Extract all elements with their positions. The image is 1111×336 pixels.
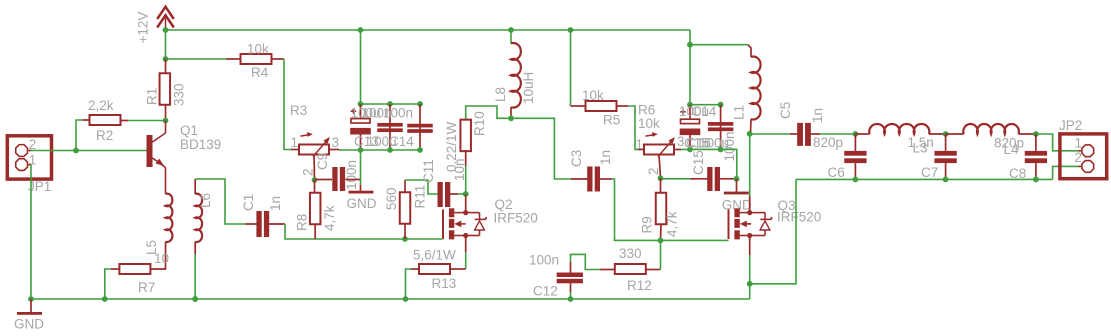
label L5 name (144, 240, 159, 255)
wire C7 bottom pin (945, 163, 947, 179)
wire rail corner to L1 (690, 44, 748, 46)
label C9 value 100n (344, 160, 359, 190)
label R12 value 330 (619, 246, 642, 261)
svg-text:R9: R9 (640, 216, 655, 233)
junction ground rail R13 (403, 296, 409, 302)
junction C8 bottom (1033, 177, 1039, 183)
svg-text:IRF520: IRF520 (494, 211, 538, 226)
label R1 value 330 (172, 83, 187, 106)
svg-text:R13: R13 (432, 276, 457, 291)
label R8 value 4,7k (322, 205, 337, 231)
wire R10 bottom pin (465, 150, 467, 166)
wire JP2 pin1 stub (1079, 150, 1082, 152)
label JP1 pin 1 (29, 153, 37, 168)
wire C1 left pin (245, 223, 257, 225)
svg-text:C11: C11 (421, 159, 436, 183)
capacitor C5 (797, 123, 811, 146)
wire R3 pin3 stub (329, 149, 339, 151)
junction JP1/R2/Q1 base (73, 148, 79, 154)
label C1 value 1n (268, 196, 283, 211)
junction Q2 source (463, 233, 468, 238)
resistor R12 (615, 264, 646, 274)
wire L6 to C1 (195, 179, 245, 224)
label C13 value 100u (351, 106, 381, 121)
label C5 name (778, 102, 793, 119)
svg-text:C1: C1 (241, 194, 256, 211)
label C10 value 100n (362, 106, 392, 121)
label GND stage2 (722, 198, 752, 213)
label +12V (136, 12, 151, 44)
svg-text:R11: R11 (413, 185, 428, 209)
junction C11/R10/drain (463, 191, 469, 197)
junction R6 wiper node (658, 175, 664, 181)
svg-text:GND: GND (14, 317, 44, 332)
svg-text:2: 2 (646, 167, 661, 175)
wire C15 left pin (690, 178, 707, 180)
wire JP1 pin2 to Q1 base (31, 150, 147, 152)
wire C3 right pin (599, 178, 612, 180)
transistor Q3 IRF520 (729, 208, 772, 239)
wire C14 pins (419, 104, 421, 150)
wire R3 pin3 to cap bank (339, 149, 420, 151)
label Q1 name (180, 123, 198, 138)
wire R4 right pin (272, 58, 285, 60)
wire source to ground node (749, 255, 751, 284)
svg-text:2: 2 (1075, 150, 1083, 165)
label C6 value 820p (813, 135, 843, 150)
label L4 name (1004, 142, 1020, 157)
label GND bank (347, 196, 377, 211)
wire GND2 stub (736, 179, 738, 192)
wire C1 right pin (269, 223, 285, 225)
label R3 pin3 (332, 135, 340, 150)
wire drain to L1 node (749, 134, 751, 196)
svg-text:R3: R3 (290, 103, 307, 118)
wire C1 to gate network (285, 224, 405, 239)
wire gate feed Q2 (405, 238, 443, 240)
wire Q2 source down (465, 236, 467, 253)
resistor R8 (310, 193, 321, 225)
svg-text:IRF520: IRF520 (777, 210, 821, 225)
wire R10 to drain node (465, 166, 467, 194)
svg-text:C15: C15 (691, 150, 706, 175)
wire bank2 top (690, 104, 721, 106)
wire R4 left pin (226, 58, 241, 60)
connector JP2 (1060, 134, 1107, 179)
wire L3 left pin (855, 133, 869, 135)
wire C8 bottom pin (1035, 163, 1037, 179)
junction rail R5 (568, 27, 574, 33)
wire bank to GND (360, 150, 362, 185)
svg-text:R8: R8 (295, 214, 310, 231)
wire JP1 pin1 to ground rail (30, 165, 32, 299)
transistor Q1 BD139 (147, 121, 166, 195)
wire C7 top pin (945, 134, 947, 151)
svg-text:L8: L8 (493, 87, 508, 102)
wire node to R4 (166, 58, 227, 60)
junction ground rail left (28, 296, 34, 302)
svg-text:10k: 10k (247, 42, 269, 57)
resistor R2 (90, 115, 121, 125)
wire rail node L8 (510, 30, 512, 44)
wire JP1 pin1 stub (28, 164, 31, 166)
svg-text:10k: 10k (582, 88, 604, 103)
label JP1 pin 2 (29, 137, 37, 152)
label C15 name (691, 150, 706, 175)
wire C13 top pin (360, 104, 362, 119)
junction bank bottom C10 (387, 147, 393, 153)
wire R12 to R9 foot (660, 240, 662, 269)
wire C13 bottom pin (360, 135, 362, 151)
resistor R13 (419, 264, 450, 274)
junction rail L8 top (508, 27, 514, 33)
label JP2 name (1059, 118, 1082, 133)
junction Q3 drain (747, 210, 752, 215)
wire L1 top pin (748, 45, 751, 57)
junction C8 top (1033, 131, 1039, 137)
wire Q3 source down (749, 236, 751, 256)
junction ground rail C12 (568, 296, 574, 302)
label C8 name (1009, 166, 1026, 181)
junction bank bottom C13 (358, 147, 364, 153)
wire R13 left pin (411, 268, 419, 270)
resistor R9 (656, 193, 667, 225)
junction C6 top (853, 131, 859, 137)
capacitor C9 (332, 167, 345, 191)
label R6 name (638, 103, 655, 118)
svg-text:1n: 1n (598, 150, 613, 165)
label R10 name (472, 111, 487, 136)
svg-text:L6: L6 (198, 193, 213, 208)
wire L1 bottom pin (750, 119, 753, 134)
label L1 name (732, 105, 747, 120)
wire R3 wiper pin (313, 155, 316, 181)
label C3 value 1n (598, 150, 613, 165)
capacitor C10 (377, 123, 403, 132)
wire rail to R5 (570, 30, 572, 106)
wire R6 pin3 to bank2 (681, 149, 737, 178)
inductor L5 (166, 194, 173, 242)
label L4 value 820p (994, 136, 1024, 151)
connector JP1 (7, 136, 51, 179)
junction ground rail R7 (102, 296, 108, 302)
trimmer R6 (644, 132, 675, 156)
wire R2 left pin (83, 119, 91, 121)
junction L8 bottom (508, 115, 514, 121)
wire C9 right pin (345, 179, 360, 181)
wire C11 to drain node (458, 193, 466, 195)
label R13 value 5,6/1W (413, 248, 456, 263)
svg-text:C6: C6 (828, 165, 845, 180)
junction ground rail L6b (192, 296, 198, 302)
label R5 name (603, 113, 620, 128)
wire top +12V rail (166, 29, 691, 31)
resistor R7 (119, 264, 150, 274)
wire R6 pin1 stub (639, 149, 645, 151)
label Q2 value IRF520 (494, 211, 538, 226)
svg-text:C14: C14 (389, 134, 414, 149)
svg-text:1: 1 (636, 137, 644, 152)
label R13 name (432, 276, 457, 291)
wire R5 left pin (571, 105, 585, 107)
svg-text:10: 10 (154, 251, 169, 266)
junction R3 wiper node (312, 177, 318, 183)
wire gate feed Q3 (661, 239, 729, 241)
junction bank2 top C14 (718, 102, 724, 108)
wire R2 right pin (121, 120, 129, 122)
resistor R11 (400, 192, 411, 224)
wire C16 top pin (689, 105, 691, 120)
svg-text:L1: L1 (732, 105, 747, 120)
svg-text:L4: L4 (1004, 142, 1020, 157)
junction bank top C14 (417, 101, 423, 107)
svg-text:R7: R7 (138, 280, 155, 295)
label C11 value 10n (452, 158, 467, 181)
svg-text:R2: R2 (96, 128, 113, 143)
wire to JP2 pin2 (1053, 166, 1079, 179)
svg-text:C14: C14 (692, 104, 717, 119)
wire R12 left pin (600, 269, 615, 271)
wire C3 to R9 foot (612, 179, 661, 240)
wire base node up to R2 (76, 120, 83, 151)
svg-text:10k: 10k (638, 116, 660, 131)
wire R8 top pin (314, 180, 316, 193)
wire C6 top pin (854, 134, 856, 151)
wire rail to cap bank (360, 30, 362, 104)
svg-text:JP2: JP2 (1059, 118, 1082, 133)
label R9 name (640, 216, 655, 233)
svg-text:+12V: +12V (136, 12, 151, 44)
svg-text:4,7k: 4,7k (322, 205, 337, 231)
capacitor C8 (1025, 151, 1047, 163)
wire R7 to ground rail (105, 269, 111, 299)
svg-text:2,2k: 2,2k (88, 98, 114, 113)
inductor L6 (195, 194, 202, 242)
label R8 name (295, 214, 310, 231)
resistor R4 (241, 54, 272, 64)
wire L1 node to C5 (750, 133, 790, 135)
svg-text:R12: R12 (627, 278, 652, 293)
resistor R10 (460, 120, 471, 151)
wire drain node (465, 194, 467, 213)
svg-text:1n: 1n (810, 108, 825, 123)
capacitor C13 100u polarized (350, 109, 371, 135)
wire C12 to R12 (571, 254, 601, 269)
junction ground lift node (747, 281, 753, 287)
trimmer R3 (299, 132, 330, 156)
label Q2 name (495, 197, 513, 212)
wire C10 pins (389, 104, 391, 150)
wire C5 right pin (811, 133, 820, 135)
label R3 pin1 (291, 135, 299, 150)
wire R9 bottom pin (660, 225, 663, 241)
capacitor C7 (934, 151, 956, 163)
capacitor C1 (256, 211, 269, 237)
label R4 value 10k (247, 42, 269, 57)
label R7 value 10 (154, 251, 169, 266)
wire L6 bottom ground (194, 254, 196, 299)
svg-text:100n: 100n (383, 106, 413, 121)
junction C7 top (943, 131, 949, 137)
label C12 name (533, 284, 558, 299)
wire C8 top pin (1035, 134, 1037, 151)
svg-text:10uH: 10uH (521, 72, 536, 104)
label bank2 C14 name (692, 104, 717, 119)
junction top rail at +12V (163, 27, 169, 33)
label JP2 pin 2 (1075, 150, 1083, 165)
wire L8 bottom pin (510, 107, 512, 118)
wire JP2 pin2 stub (1079, 165, 1082, 167)
label C9 name (315, 153, 330, 170)
wire L4 left pin (946, 133, 964, 135)
label C16 name (686, 136, 711, 151)
wire R12 right pin (646, 269, 661, 271)
label R7 name (138, 280, 155, 295)
label L3 name (913, 141, 928, 156)
label L8 name (493, 87, 508, 102)
junction C15 GND node (734, 176, 740, 182)
label R3 name (290, 103, 307, 118)
wire C12 to ground rail (570, 292, 572, 299)
label C7 name (921, 165, 938, 180)
wire C14b pins (720, 105, 722, 150)
junction bank2 bottom C16 (687, 147, 693, 153)
capacitor C14 (407, 124, 433, 133)
label JP1 name (28, 179, 51, 194)
label C12 value 100n (529, 253, 559, 268)
capacitor C15 (707, 167, 720, 191)
label Q3 name (778, 198, 796, 213)
wire R7 left pin (111, 268, 119, 270)
wire GND stub (360, 185, 362, 191)
label R11 value 560 (384, 187, 399, 210)
junction bank top C10 (387, 101, 393, 107)
wire cap bank top (361, 103, 421, 105)
wire R5 right pin (618, 105, 629, 107)
svg-text:C3: C3 (569, 150, 584, 167)
wire C11 right pin (450, 193, 458, 195)
ground stage2 GND (724, 192, 749, 195)
svg-text:1n: 1n (268, 196, 283, 211)
junction ground rail L6 (192, 296, 198, 302)
svg-text:100n: 100n (344, 160, 359, 190)
capacitor C11 (438, 182, 451, 207)
label R12 name (627, 278, 652, 293)
label R2 name (96, 128, 113, 143)
inductor L8 (511, 43, 521, 108)
label C11 name (421, 159, 436, 183)
label L6 name (198, 193, 213, 208)
label C5 value 1n (810, 108, 825, 123)
capacitor C16 100u polarized (680, 109, 701, 135)
label bank2 value 100u (699, 136, 729, 151)
svg-text:C5: C5 (778, 102, 793, 119)
wire R6 pin3 stub (674, 149, 681, 151)
capacitor C3 (587, 167, 600, 192)
wire L6 top pin (194, 179, 196, 194)
label C15 value 100n (722, 131, 737, 161)
power +12V supply symbol (157, 7, 174, 30)
wire rail down to bank2 (689, 30, 691, 105)
label GND main (14, 317, 44, 332)
svg-text:R1: R1 (145, 88, 160, 105)
label R10 value 0,22/1W (444, 121, 459, 172)
capacitor C6 (844, 151, 866, 163)
wire output bottom bus (796, 178, 1053, 180)
svg-text:330: 330 (619, 246, 642, 261)
label R4 name (251, 65, 269, 80)
wire R11 top pin (404, 180, 406, 193)
label R5 value 10k (582, 88, 604, 103)
svg-text:R10: R10 (472, 111, 487, 136)
wire L6 bottom pin (194, 242, 196, 254)
svg-text:C12: C12 (533, 284, 558, 299)
label C14 name (389, 134, 414, 149)
wire Q3 drain up (749, 196, 751, 213)
junction R1/R2/Q1 collector (163, 118, 169, 124)
junction Q2 drain (463, 210, 468, 215)
junction bank2 top C16 (687, 102, 693, 108)
label bank2 C15 name (684, 136, 709, 151)
label Q3 value IRF520 (777, 210, 821, 225)
wire C15 right pin (720, 178, 737, 180)
resistor R5 (586, 101, 617, 111)
inductor L3 (869, 124, 929, 134)
label R3 pin2 (301, 168, 316, 176)
svg-text:R4: R4 (251, 65, 269, 80)
label R2 value 2,2k (88, 98, 114, 113)
wire source to R13 (465, 252, 467, 269)
label R6 pin3 (677, 134, 685, 149)
junction rail corner L1 (687, 42, 693, 48)
wire R1 bottom pin (165, 105, 167, 121)
svg-text:C9: C9 (315, 153, 330, 170)
label C6 name (828, 165, 845, 180)
wire R8 bottom pin (314, 224, 316, 239)
wire R4 to R3 pin1 (284, 59, 291, 150)
wire C6 bottom pin (854, 163, 856, 179)
junction C6 bottom (853, 177, 859, 183)
svg-text:Q1: Q1 (180, 123, 198, 138)
label C16 value 100u (679, 104, 709, 119)
svg-text:R5: R5 (603, 113, 620, 128)
junction bank bottom C14 (417, 147, 423, 153)
wire +12V to R4 node (165, 30, 167, 59)
wire ground rail (31, 298, 750, 300)
junction C7 bottom (943, 177, 949, 183)
wire C16 bottom pin (689, 134, 691, 149)
wire wiper to C15 (661, 178, 691, 180)
label R11 name (413, 185, 428, 209)
wire GND0 stub (30, 299, 32, 312)
wire ground node east (750, 179, 796, 283)
label R6 value 10k (638, 116, 660, 131)
inductor L1 (751, 57, 761, 120)
label JP2 pin 1 (1075, 136, 1083, 151)
junction Q3 source (747, 233, 752, 238)
ground bank GND (349, 191, 374, 194)
svg-text:100n: 100n (529, 253, 559, 268)
wire R11 to C11 (405, 180, 438, 194)
svg-text:1: 1 (1075, 136, 1083, 151)
wire L4 right pin (1019, 133, 1036, 135)
transistor Q2 IRF520 (443, 208, 486, 239)
wire L3 right pin (929, 133, 946, 135)
junction bank2 bottom C14 (718, 147, 724, 153)
wire R11 bottom pin (404, 223, 406, 239)
capacitor C12 (557, 273, 583, 284)
svg-text:5,6/1W: 5,6/1W (413, 248, 456, 263)
